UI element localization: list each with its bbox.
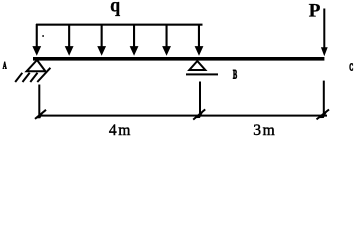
svg-text:P: P	[309, 1, 321, 22]
load arrow 4	[130, 24, 139, 56]
extension line under B	[199, 82, 201, 117]
load arrow 1	[32, 24, 41, 56]
dim arrow at B	[193, 109, 205, 119]
roller support B base line	[186, 73, 218, 75]
pin support A triangle	[27, 60, 46, 71]
load arrow 3	[97, 24, 106, 56]
extension line under A	[38, 85, 40, 117]
svg-text:A: A	[3, 60, 7, 71]
roller support B triangle	[189, 61, 205, 70]
load arrow 6	[195, 24, 204, 56]
load P arrow	[321, 9, 328, 57]
svg-text:3m: 3m	[253, 122, 276, 139]
extension line under C	[323, 81, 325, 117]
dimension line 3m	[200, 115, 327, 117]
load arrow 2	[65, 24, 74, 56]
pin support A hatching	[15, 68, 50, 82]
svg-text:C: C	[349, 62, 353, 73]
dim arrow at A	[35, 110, 46, 119]
svg-text:4m: 4m	[109, 122, 132, 139]
load arrow 5	[162, 24, 171, 56]
distributed load q top line	[36, 24, 203, 26]
stray dot	[42, 35, 44, 37]
beam A-C	[33, 57, 324, 61]
dim arrow at C	[317, 110, 330, 120]
dimension line 4m	[39, 115, 200, 117]
svg-text:q: q	[110, 0, 120, 17]
svg-text:B: B	[233, 68, 237, 82]
